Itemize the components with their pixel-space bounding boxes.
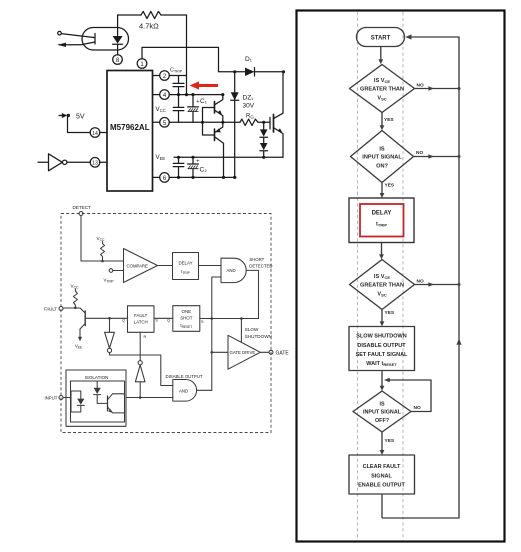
LED loop (isolation) (71, 391, 81, 412)
gate protection zeners (263, 122, 265, 129)
wire fault input (63, 308, 85, 313)
decision d2: input signal on (351, 131, 414, 183)
vertical bus (one-shot output) (212, 277, 221, 390)
SLOW SHUTDOWN wire (240, 319, 242, 343)
wire isolation output (126, 397, 173, 399)
svg-text:ONE: ONE (182, 309, 192, 314)
svg-text:30V: 30V (243, 103, 255, 110)
svg-text:YES: YES (385, 310, 395, 316)
wire detect drop (186, 15, 188, 95)
svg-text:DETECTED: DETECTED (249, 264, 272, 269)
node: emitter output junction (221, 121, 224, 124)
svg-text:2: 2 (163, 74, 167, 80)
resistor R1 (141, 11, 161, 18)
wire AND output down (246, 270, 258, 318)
svg-text:COMPARE: COMPARE (127, 264, 149, 269)
svg-text:S: S (201, 320, 204, 324)
wire no1 (415, 88, 460, 90)
wire top rail (118, 14, 187, 16)
svg-text:GREATER THAN: GREATER THAN (360, 283, 404, 289)
pin 1 (137, 59, 147, 69)
svg-text:GREATER THAN: GREATER THAN (360, 87, 404, 93)
decision d4: input signal off (353, 391, 411, 432)
node: D1 anode junction (233, 70, 236, 73)
svg-text:DELAY: DELAY (178, 261, 192, 266)
wire latch to one-shot (154, 317, 173, 319)
svg-text:S: S (155, 319, 158, 323)
svg-text:GATE: GATE (276, 350, 290, 356)
svg-text:VEE: VEE (75, 344, 82, 350)
svg-text:WAIT tRESET: WAIT tRESET (366, 361, 397, 367)
pin 8 (113, 55, 123, 65)
svg-text:4.7kΩ: 4.7kΩ (139, 22, 159, 31)
inverter (input buffer) (38, 154, 62, 171)
5V supply (59, 115, 63, 117)
GATE DRIVE amp (212, 351, 228, 353)
svg-text:VTRIP: VTRIP (104, 278, 114, 284)
wire base rail (203, 108, 215, 136)
svg-text:OFF?: OFF? (375, 418, 389, 424)
loop wire (return to start) (382, 37, 459, 518)
wire d4 to clear box (381, 432, 383, 451)
node: base rail junction (201, 121, 204, 124)
svg-text:SLOW: SLOW (245, 327, 259, 332)
capacitor (Vcc bypass) (173, 95, 184, 123)
svg-text:C₁: C₁ (200, 98, 208, 105)
svg-text:14: 14 (92, 131, 98, 137)
ONE SHOT block (173, 306, 200, 332)
svg-text:NO: NO (414, 405, 421, 411)
svg-text:Q: Q (167, 319, 170, 323)
red highlight box (360, 204, 404, 237)
svg-text:Q: Q (122, 319, 125, 323)
svg-text:YES: YES (384, 117, 394, 123)
wire no3 (415, 284, 460, 286)
svg-text:IS: IS (379, 146, 385, 152)
transistor Q2 (lower PNP) (214, 129, 216, 141)
wire detect to comparator (81, 216, 124, 262)
svg-text:IS VCE: IS VCE (374, 78, 390, 84)
svg-text:NO: NO (417, 279, 424, 285)
phototransistor (isolation) (107, 396, 109, 411)
svg-text:tTRIP: tTRIP (181, 269, 190, 275)
pin 5 (153, 121, 241, 123)
diode D1 (245, 68, 255, 76)
svg-text:LATCH: LATCH (134, 320, 148, 325)
pin 4 (153, 94, 223, 96)
svg-text:5V: 5V (76, 114, 85, 121)
svg-text:tRESET: tRESET (180, 323, 192, 329)
svg-text:YES: YES (385, 438, 395, 444)
svg-text:1: 1 (140, 62, 144, 68)
svg-text:IS VCE: IS VCE (374, 274, 390, 280)
svg-text:RG: RG (246, 114, 254, 120)
pin 6 (153, 176, 237, 178)
svg-text:VEE: VEE (156, 154, 166, 161)
wire start to d1 (380, 47, 382, 60)
IC U1 M57962AL (107, 71, 153, 192)
svg-text:SET FAULT SIGNAL: SET FAULT SIGNAL (356, 352, 408, 358)
process slow shutdown box (349, 327, 415, 371)
wire d1 to d2 (381, 113, 383, 127)
svg-text:+: + (196, 159, 199, 165)
svg-text:YES: YES (385, 183, 395, 189)
node: gate junction (262, 121, 265, 124)
svg-text:SHOT: SHOT (180, 316, 193, 321)
wire pin1 to detect rail (142, 47, 245, 71)
DELAY block (173, 253, 199, 280)
GATE terminal (260, 351, 269, 353)
node: collector rail junction (282, 70, 285, 73)
svg-text:NO: NO (416, 150, 423, 156)
wire compare to delay (158, 265, 173, 267)
ISOLATION block (66, 370, 126, 426)
wire shutdown to d4 (381, 371, 383, 387)
wire d2 to delay (381, 183, 383, 194)
svg-text:GATE DRIVE: GATE DRIVE (230, 350, 256, 355)
svg-text:C₂: C₂ (200, 167, 208, 174)
AND gate U2 (221, 258, 246, 282)
IGBT Q3 (269, 118, 271, 130)
svg-text:ON?: ON? (376, 163, 388, 169)
svg-text:13: 13 (92, 161, 98, 167)
svg-text:FAULT: FAULT (134, 313, 148, 318)
svg-text:DISABLE OUTPUT: DISABLE OUTPUT (357, 343, 406, 349)
output arrow wire (59, 42, 95, 45)
dashed guide line right (402, 12, 404, 540)
svg-text:ENABLE OUTPUT: ENABLE OUTPUT (358, 482, 405, 488)
AND gate U3 (173, 380, 197, 402)
FAULT LATCH block (128, 306, 155, 333)
optocoupler PC1 body (82, 28, 129, 51)
svg-text:INPUT SIGNAL: INPUT SIGNAL (363, 410, 402, 416)
decision d1: Vce greater than Vsc (350, 65, 415, 113)
node: pin4 junctions (177, 93, 180, 96)
wire one-shot output (200, 318, 259, 320)
wire no4 wait loop (390, 380, 432, 412)
process clear fault box (349, 455, 415, 494)
svg-text:START: START (371, 36, 391, 42)
wire input to phototransistor (61, 34, 95, 38)
svg-text:VCC: VCC (156, 106, 166, 113)
svg-text:CTRIP: CTRIP (170, 68, 183, 74)
wire I1 to disable AND (110, 353, 173, 386)
svg-text:6: 6 (163, 176, 167, 182)
svg-text:SHORT: SHORT (249, 257, 264, 262)
wire Vee rail (174, 156, 283, 158)
red annotation arrow (197, 84, 218, 87)
phototransistor (inside opto) (94, 34, 96, 45)
pin 2 (153, 75, 187, 77)
process DELAY box (349, 198, 414, 243)
svg-text:D₁: D₁ (245, 56, 253, 63)
op-amp COMPARE (124, 249, 158, 283)
START terminator (357, 28, 405, 47)
wire AND3 output (197, 389, 212, 391)
capacitor (Vee bypass) (173, 157, 184, 177)
svg-text:R: R (144, 335, 147, 339)
svg-text:8: 8 (116, 58, 120, 64)
wire base to latch (85, 317, 127, 319)
resistor RG (240, 119, 270, 125)
svg-text:DZ₁: DZ₁ (243, 95, 255, 102)
svg-text:IS: IS (379, 402, 384, 408)
wire delay to d3 (381, 243, 383, 256)
input terminal (58, 31, 62, 35)
wire clear box exit (381, 494, 383, 518)
svg-text:DELAY: DELAY (372, 211, 392, 217)
dashed guide line left (357, 12, 359, 540)
svg-text:VSC: VSC (377, 292, 386, 298)
wire 5V to pin 14 (68, 117, 91, 132)
transistor Q (fault driver) (84, 311, 86, 326)
svg-text:AND: AND (227, 268, 236, 273)
capacitor C1 (188, 95, 199, 123)
svg-text:INPUT: INPUT (45, 396, 58, 401)
Vtrip input terminal (109, 269, 113, 273)
transistor Q1 (upper NPN) (214, 102, 216, 114)
inverter I2 (reset) (139, 396, 142, 399)
svg-text:tTRIP: tTRIP (376, 222, 387, 228)
inverter I1 (105, 318, 115, 348)
svg-text:VCC: VCC (71, 284, 80, 290)
svg-text:DISABLE OUTPUT: DISABLE OUTPUT (166, 374, 203, 379)
svg-text:ISOLATION: ISOLATION (85, 375, 109, 380)
svg-text:5: 5 (163, 121, 167, 127)
wire delay to AND (199, 265, 222, 267)
pin 14 (90, 128, 100, 138)
LED D (inside opto) (117, 15, 119, 36)
svg-text:AND: AND (179, 388, 188, 393)
svg-text:SLOW SHUTDOWN: SLOW SHUTDOWN (356, 334, 406, 340)
svg-text:FAULT: FAULT (44, 307, 57, 312)
zener DZ1 (234, 72, 236, 178)
svg-text:INPUT SIGNAL: INPUT SIGNAL (362, 155, 402, 161)
wire no2 (414, 156, 460, 158)
svg-text:CLEAR FAULT: CLEAR FAULT (363, 464, 401, 470)
svg-text:VCC: VCC (97, 236, 106, 242)
svg-text:M57962AL: M57962AL (110, 123, 150, 132)
svg-text:DETECT: DETECT (73, 205, 92, 210)
capacitor C2 (188, 157, 199, 177)
svg-text:VSC: VSC (377, 96, 386, 102)
diode (isolation) (96, 381, 98, 388)
panel border (297, 11, 505, 542)
wire d3 to shutdown box (381, 310, 383, 323)
svg-text:SHUTDOWN: SHUTDOWN (245, 334, 272, 339)
svg-text:SIGNAL: SIGNAL (371, 473, 392, 479)
svg-text:4: 4 (163, 93, 167, 99)
dashed boundary (61, 214, 271, 433)
decision d3: Vce greater than Vsc (350, 260, 415, 310)
svg-text:NO: NO (417, 83, 424, 89)
pin 13 (90, 158, 100, 168)
